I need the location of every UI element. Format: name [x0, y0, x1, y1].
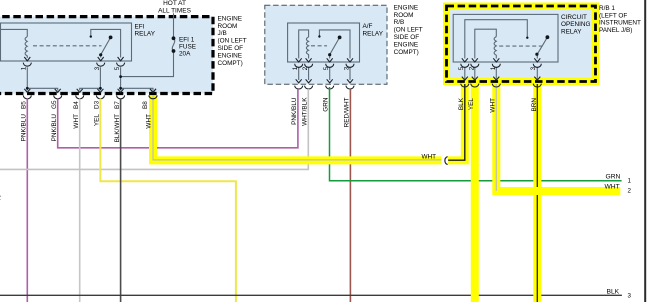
svg-text:R/B 1: R/B 1: [599, 5, 615, 12]
svg-text:5: 5: [458, 66, 465, 70]
svg-text:20A: 20A: [179, 51, 191, 58]
svg-text:3: 3: [94, 66, 101, 70]
svg-text:R/B: R/B: [394, 19, 405, 26]
svg-text:RELAY: RELAY: [363, 30, 384, 37]
svg-text:WHT/BLK: WHT/BLK: [302, 97, 309, 126]
svg-text:(LEFT OF: (LEFT OF: [599, 12, 627, 19]
svg-text:2: 2: [0, 195, 1, 202]
svg-text:(ON LEFT: (ON LEFT: [394, 27, 423, 34]
svg-text:B5: B5: [21, 101, 28, 109]
svg-text:PNK/BLU: PNK/BLU: [51, 114, 58, 142]
svg-text:2: 2: [302, 66, 309, 70]
svg-text:B8: B8: [142, 101, 149, 109]
svg-text:WHT: WHT: [145, 114, 152, 129]
svg-text:ENGINE: ENGINE: [394, 4, 419, 11]
svg-text:RELAY: RELAY: [135, 30, 156, 37]
svg-text:CIRCUIT: CIRCUIT: [561, 14, 587, 21]
svg-text:B7: B7: [114, 101, 121, 109]
svg-text:3: 3: [628, 293, 632, 300]
svg-text:J/B: J/B: [218, 30, 227, 37]
svg-text:B4: B4: [73, 101, 80, 109]
svg-text:HOT AT: HOT AT: [163, 0, 186, 7]
svg-text:ENGINE: ENGINE: [394, 41, 419, 48]
svg-text:ALL TIMES: ALL TIMES: [158, 7, 192, 14]
svg-text:D3: D3: [94, 100, 101, 109]
svg-text:COMPT): COMPT): [394, 49, 419, 56]
svg-text:BLK: BLK: [458, 97, 465, 110]
svg-text:GRN: GRN: [606, 174, 621, 181]
svg-text:OPENING: OPENING: [561, 21, 591, 28]
svg-text:1: 1: [292, 66, 299, 70]
svg-text:RED/WHT: RED/WHT: [344, 97, 351, 127]
svg-text:5: 5: [323, 66, 330, 70]
svg-text:2: 2: [628, 188, 632, 195]
svg-text:ENGINE: ENGINE: [218, 15, 243, 22]
svg-text:SIDE OF: SIDE OF: [394, 34, 420, 41]
svg-text:GRN: GRN: [322, 97, 329, 112]
svg-text:COMPT): COMPT): [218, 60, 243, 67]
svg-text:ROOM: ROOM: [394, 12, 414, 19]
svg-text:WHT: WHT: [422, 153, 437, 160]
svg-text:WHT: WHT: [605, 184, 620, 191]
svg-text:FUSE: FUSE: [179, 44, 196, 51]
svg-text:RELAY: RELAY: [561, 28, 582, 35]
svg-text:(ON LEFT: (ON LEFT: [218, 38, 247, 45]
svg-text:3: 3: [343, 66, 350, 70]
svg-text:PNK/BLU: PNK/BLU: [21, 114, 28, 142]
svg-text:ENGINE: ENGINE: [218, 52, 243, 59]
svg-text:3: 3: [530, 66, 537, 70]
svg-text:INSTRUMENT: INSTRUMENT: [599, 20, 641, 27]
svg-text:2: 2: [469, 66, 476, 70]
svg-text:1: 1: [628, 178, 632, 185]
svg-text:ROOM: ROOM: [218, 23, 238, 30]
svg-text:G5: G5: [51, 100, 58, 109]
svg-text:PANEL J/B): PANEL J/B): [599, 27, 632, 34]
svg-text:YEL: YEL: [94, 114, 101, 127]
svg-text:SIDE OF: SIDE OF: [218, 45, 244, 52]
svg-text:WHT: WHT: [73, 114, 80, 129]
svg-text:1: 1: [21, 66, 28, 70]
svg-text:BLK: BLK: [607, 288, 620, 295]
svg-text:A/F: A/F: [363, 23, 373, 30]
svg-text:EFI 1: EFI 1: [179, 37, 195, 44]
svg-text:1: 1: [490, 66, 497, 70]
svg-text:WHT: WHT: [489, 98, 496, 113]
svg-text:YEL: YEL: [468, 98, 475, 111]
svg-text:PNK/BLU: PNK/BLU: [291, 97, 298, 125]
svg-text:BRN: BRN: [531, 98, 538, 112]
svg-text:5: 5: [114, 66, 121, 70]
svg-text:BLK/WHT: BLK/WHT: [114, 114, 121, 143]
